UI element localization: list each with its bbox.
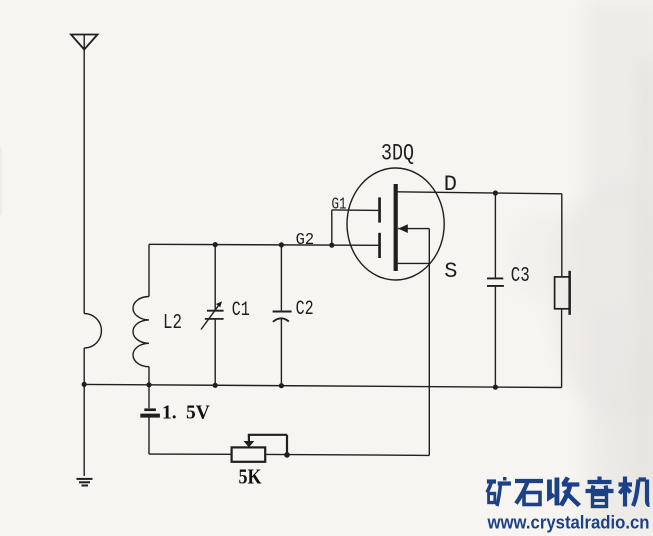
svg-text:C2: C2 bbox=[296, 298, 314, 321]
svg-text:G1: G1 bbox=[332, 196, 347, 215]
svg-text:3DQ: 3DQ bbox=[381, 141, 414, 167]
svg-text:1.: 1. bbox=[162, 403, 177, 424]
svg-text:L2: L2 bbox=[163, 312, 182, 335]
svg-text:5V: 5V bbox=[186, 403, 210, 424]
svg-text:G2: G2 bbox=[296, 231, 315, 250]
svg-text:5K: 5K bbox=[239, 465, 263, 489]
svg-text:S: S bbox=[444, 259, 457, 284]
svg-text:www.crystalradio.cn: www.crystalradio.cn bbox=[487, 513, 650, 533]
svg-text:D: D bbox=[444, 172, 457, 197]
svg-text:C3: C3 bbox=[511, 265, 530, 288]
svg-text:C1: C1 bbox=[232, 299, 250, 322]
